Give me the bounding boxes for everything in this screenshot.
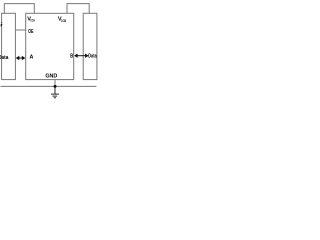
- ground rail wire: [0, 85, 96, 87]
- svg-text:Data: Data: [88, 53, 96, 59]
- svg-text:OE: OE: [28, 29, 34, 35]
- peripheral box (right): [83, 13, 97, 79]
- svg-text:A: A: [30, 55, 34, 61]
- svg-text:er: er: [0, 22, 3, 28]
- svg-text:GND: GND: [45, 73, 57, 79]
- OE wire: [15, 29, 25, 31]
- svg-text:Data: Data: [0, 55, 8, 61]
- junction dot: [54, 85, 57, 88]
- level translator box U1: [26, 13, 74, 79]
- VCCB supply rail wire: [67, 4, 89, 14]
- svg-text:CCB: CCB: [61, 18, 66, 23]
- B-side data arrow: [75, 55, 88, 57]
- GND stub wire: [54, 80, 56, 87]
- ground symbol: [54, 86, 56, 94]
- svg-text:B: B: [70, 53, 73, 59]
- VCCA supply rail wire: [4, 4, 34, 14]
- svg-text:CCA: CCA: [30, 18, 35, 23]
- A-side data arrow: [17, 57, 25, 59]
- controller box (left, clipped at image edge): [2, 13, 16, 79]
